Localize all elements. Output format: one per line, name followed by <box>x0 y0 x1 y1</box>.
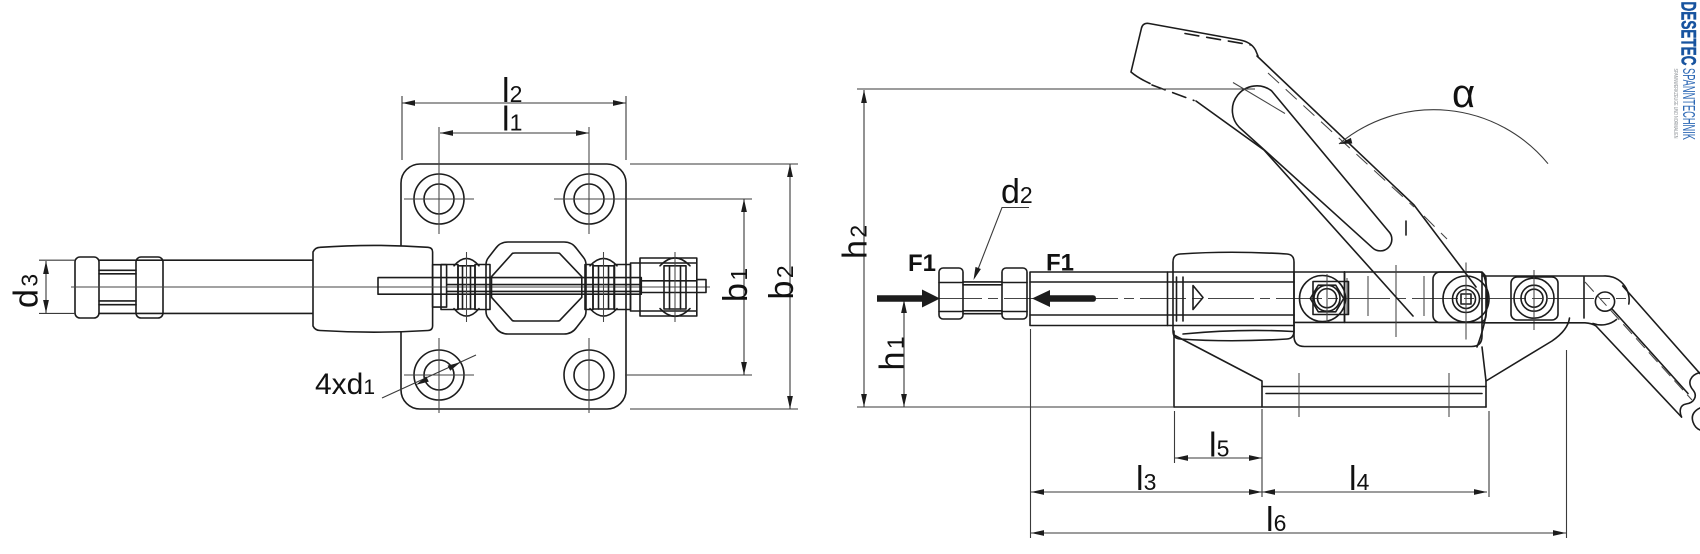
rear pivot centerline <box>1533 270 1535 330</box>
front link pivot pin <box>1314 285 1340 311</box>
dimension d3 arrows <box>43 261 49 313</box>
dimension d3 line <box>45 261 47 313</box>
dimension b2 line <box>789 164 791 409</box>
base foot top lines <box>1262 387 1486 394</box>
link plate cap tick <box>1233 83 1285 114</box>
housing to base connector <box>1482 347 1486 381</box>
svg-text:DESETEC: DESETEC <box>1677 2 1700 66</box>
toggle link outer hexagon <box>486 242 586 334</box>
l5 arrows <box>1175 455 1262 461</box>
spindle rod (top view) <box>99 260 313 313</box>
mounting hole bottom-left <box>404 338 474 413</box>
dimension b2 extension lines <box>630 164 798 409</box>
lug cap bottom arc <box>1593 320 1617 325</box>
mounting hole bottom-right <box>564 338 614 413</box>
h1 dimension line <box>903 300 905 407</box>
pivot pin 3 inner lines <box>670 266 681 309</box>
washer left of pivot 1 <box>441 265 458 310</box>
base bottom edge <box>1174 406 1486 408</box>
link bar <box>1294 272 1482 323</box>
dimension l2 extension lines <box>402 96 626 160</box>
threaded stud between nuts <box>963 282 1002 314</box>
dimension b1 arrows <box>741 199 747 375</box>
dimension l1 line <box>440 132 589 134</box>
bottom reference extension line <box>857 406 1174 408</box>
view centerline <box>71 286 710 288</box>
handle lever bottom edge <box>1482 323 1682 417</box>
pivot pin 1 band <box>458 266 475 309</box>
front bushing (side view) <box>1173 252 1294 341</box>
handle lever top edge / end cap arc <box>1482 276 1629 304</box>
handle outer right edge <box>1257 56 1476 287</box>
front bushing body <box>313 245 433 332</box>
lug left vertical <box>1583 277 1585 318</box>
link bar tick marks <box>1347 265 1424 337</box>
lever plate tick <box>1405 221 1407 235</box>
svg-text:α: α <box>1452 72 1475 116</box>
dimension l2 line <box>402 102 626 104</box>
dimension l1 arrows <box>440 130 589 136</box>
spindle end clip 2 <box>136 257 163 318</box>
dimension b1 line <box>743 199 745 375</box>
l5 dimension line <box>1175 457 1262 459</box>
spindle axis centerline <box>936 298 1626 300</box>
housing plate <box>1294 272 1482 347</box>
pivot pin 1 caps <box>454 258 479 316</box>
bushing seat curve <box>1183 330 1293 334</box>
base right step <box>1486 318 1570 407</box>
washer right of pivot 1 <box>475 265 490 310</box>
base left edge <box>1173 331 1175 407</box>
thread cone point <box>1193 286 1203 310</box>
dimension b1 extension lines <box>625 199 752 375</box>
h2 arrows <box>861 90 867 407</box>
washer left of pivot 2 <box>585 265 593 310</box>
l6 dimension line <box>1031 532 1566 534</box>
l4 dimension line <box>1262 491 1487 493</box>
spindle end clip 1 <box>75 257 99 318</box>
handle outer left edge <box>1196 101 1413 316</box>
l3 l6 left extension line <box>1030 329 1032 538</box>
clevis end nub <box>641 280 706 293</box>
rear pivot <box>1514 278 1554 318</box>
base foot tick marks <box>1299 373 1449 417</box>
pivot pin 2 inner lines <box>599 266 609 309</box>
bushing insert lines <box>1177 277 1184 321</box>
pivot pin 1 centerline <box>466 252 468 322</box>
svg-text:F1: F1 <box>908 250 936 277</box>
svg-text:F1: F1 <box>1046 250 1074 277</box>
main pivot centerline <box>1465 263 1467 340</box>
hex nut 2 <box>1002 268 1027 319</box>
pivot pin 3 caps <box>660 258 690 316</box>
h2 dimension line <box>863 90 865 407</box>
l4 right extension line <box>1488 411 1490 497</box>
mounting hole top-right <box>554 174 640 224</box>
lever plate edge around main pivot <box>1477 273 1487 347</box>
front pivot pocket edge <box>1344 272 1346 322</box>
pivot pin 3 centerline <box>674 252 676 322</box>
spindle tube outer <box>1030 272 1482 326</box>
l3 dimension line <box>1031 491 1262 493</box>
d2 leader line <box>975 208 1029 278</box>
4xd1 leader line <box>382 355 476 398</box>
l5 extension lines <box>1175 409 1263 497</box>
handle-down tip arc <box>1692 408 1700 430</box>
rear pivot lug outline <box>1511 277 1558 320</box>
handle-down upper edge <box>1623 286 1700 374</box>
d3 extension lines <box>39 260 75 313</box>
h2 top extension line <box>857 88 1255 90</box>
front pivot centerline <box>1326 274 1328 322</box>
toggle link inner hexagon <box>492 253 582 321</box>
pivot pin 2 centerline <box>603 252 605 322</box>
front link pivot boss <box>1300 276 1346 322</box>
handle grip dashed edges <box>1152 34 1251 101</box>
d2 leader arrow <box>974 267 981 280</box>
handle grip <box>1131 23 1258 83</box>
lever end hole <box>1595 292 1614 311</box>
hex nut 1 <box>939 268 963 319</box>
4xd1 leader arrows <box>416 362 461 385</box>
front pivot block <box>1313 282 1349 315</box>
handle-down break curve <box>1680 373 1700 418</box>
pivot pin 3 band <box>664 266 686 309</box>
handle-down centerline <box>1585 282 1692 400</box>
threaded rod through-lines <box>447 285 641 292</box>
pivot pin 2 caps <box>590 258 617 316</box>
mounting plate (top view) <box>401 164 626 409</box>
pivot pin 2 band <box>593 266 614 309</box>
l6 right extension line <box>1566 350 1568 538</box>
svg-text:SPANNTECHNIK: SPANNTECHNIK <box>1679 68 1699 140</box>
main toggle pivot <box>1443 276 1489 322</box>
l3 arrows <box>1031 489 1262 495</box>
h1 arrows <box>901 300 907 407</box>
handle-down inner line <box>1612 309 1688 394</box>
grip tube stadium <box>1232 86 1391 251</box>
alpha arc <box>1339 110 1548 164</box>
base left slant <box>1174 335 1262 407</box>
l6 arrows <box>1031 530 1566 536</box>
mounting hole top-left <box>404 174 474 224</box>
alpha arc arrow <box>1339 138 1352 144</box>
groove bands between clips <box>99 270 136 304</box>
clamp blade bar <box>378 278 641 295</box>
clevis block <box>631 258 697 316</box>
washer right of pivot 2 <box>615 265 631 310</box>
pivot pin 1 inner lines <box>463 266 471 309</box>
F1 right force arrow <box>1032 290 1096 307</box>
handle phantom line <box>1268 73 1447 239</box>
main pivot lug outline <box>1433 272 1486 323</box>
spindle tube inner <box>1030 272 1294 326</box>
dimension b2 arrows <box>787 164 793 409</box>
hole centerlines up to l1 dimension <box>439 127 589 234</box>
dimension l2 arrows <box>402 100 626 106</box>
F1 left force arrow <box>877 290 940 308</box>
front pivot hex <box>1310 285 1343 312</box>
svg-text:SPANNWERKZEUGE UND NORMALIEN: SPANNWERKZEUGE UND NORMALIEN <box>1672 69 1678 139</box>
l4 arrows <box>1262 489 1487 495</box>
bushing step collar <box>433 265 447 307</box>
